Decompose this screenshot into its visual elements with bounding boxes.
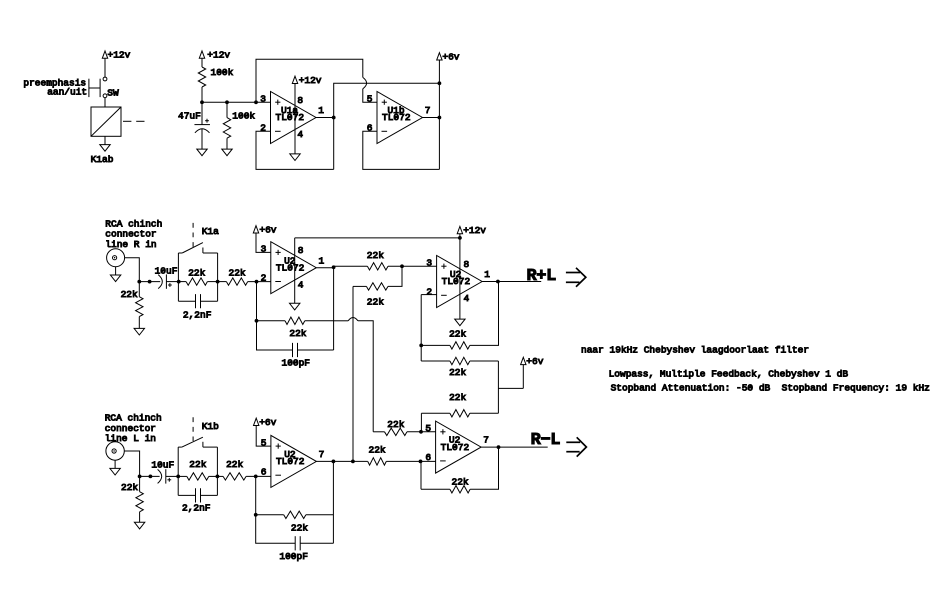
svg-text:22k: 22k <box>226 459 243 470</box>
wire RCA L to input node <box>124 451 139 476</box>
junction L riser <box>351 460 355 464</box>
junction L input <box>138 475 153 479</box>
svg-text:7: 7 <box>483 435 489 446</box>
junction K1b right <box>216 475 220 479</box>
wire U2 R feedback down <box>333 266 335 350</box>
svg-text:22k: 22k <box>452 477 469 488</box>
power +12v (U1a pin 8) <box>292 75 322 86</box>
svg-text:4: 4 <box>297 129 303 140</box>
power +12v (preemphasis switch supply) <box>102 50 130 61</box>
relay coil K1ab <box>91 107 121 165</box>
power +6v (bias) <box>521 356 544 367</box>
svg-text:+12v: +12v <box>108 50 131 61</box>
relay contact K1a (preemphasis bypass) <box>178 226 219 253</box>
wire preemphasis resistor ends L <box>178 475 217 477</box>
op-amp U1b TL072 <box>367 92 431 144</box>
wire U1b output <box>423 117 440 119</box>
note Stopband Attenuation and Frequency <box>611 383 930 394</box>
resistor 22k (sum bias to +6v) <box>421 357 498 378</box>
wire L signal riser <box>352 286 354 461</box>
wire R input node to 10uF <box>139 281 160 283</box>
ground U2 R pin 4 <box>290 303 300 310</box>
ground U1a pin 4 <box>290 154 300 161</box>
svg-text:1: 1 <box>319 255 325 266</box>
junction sum pin3 <box>400 264 404 268</box>
svg-text:7: 7 <box>425 105 431 116</box>
resistor 22k (R feedback) <box>285 317 307 339</box>
wire U1a pin8 to pin4 ground rail <box>294 84 296 154</box>
dashed actuator line K1a <box>192 223 194 248</box>
wire sum pin2 stub <box>421 294 436 296</box>
wire K1a box left <box>177 253 179 301</box>
svg-text:22k: 22k <box>289 328 306 339</box>
dashed actuator line from K1ab <box>123 120 145 122</box>
svg-text:+12v: +12v <box>463 225 486 236</box>
svg-text:22k: 22k <box>189 459 206 470</box>
wire switch to relay coil <box>104 98 106 107</box>
resistor 22k (R preemphasis) <box>186 267 207 285</box>
wire U2 R out to summing resistor <box>334 265 368 267</box>
resistor 22k (L series input) <box>217 459 271 480</box>
svg-text:22k: 22k <box>367 250 384 261</box>
svg-text:2,2nF: 2,2nF <box>182 502 211 513</box>
resistor 22k (riser to R-L pin5) <box>373 419 435 436</box>
junction +6v rail top <box>438 81 442 85</box>
svg-text:2: 2 <box>426 287 432 298</box>
svg-text:6: 6 <box>367 123 373 134</box>
arrow R-L out <box>566 437 586 456</box>
wire sum power vertical <box>459 234 461 319</box>
wire bias to R-L pin5 <box>420 413 422 432</box>
capacitor 47uF <box>178 102 210 149</box>
svg-text:R−L: R−L <box>531 431 561 450</box>
wire L input node to 10uF <box>140 475 160 477</box>
label RCA chinch connector line R in <box>105 218 162 250</box>
junction sum feedback <box>419 344 423 348</box>
resistor 100k (divider lower) <box>223 102 255 149</box>
resistor 22k (R input to ground) <box>121 282 143 329</box>
ground under R 22k <box>134 328 144 335</box>
svg-text:+6v: +6v <box>259 224 276 235</box>
svg-text:SW: SW <box>107 87 119 98</box>
wire U2 R power vertical <box>294 238 296 303</box>
power +12v (bias divider) <box>199 50 230 61</box>
wire +6v to U2 R pin3 <box>256 233 271 252</box>
wire K1b box left <box>177 447 179 495</box>
wire U2 R pin8 +12v rail <box>295 237 460 239</box>
wire 10uF to K1b network <box>166 475 178 477</box>
zero-slash strokes in value labels <box>158 70 750 558</box>
svg-text:+6v: +6v <box>526 356 543 367</box>
junction U1a output <box>332 116 336 120</box>
wire R feedback row to R-L amp with hop <box>334 318 374 432</box>
connector RCA R in <box>107 249 125 267</box>
wire 10uF to K1a network <box>166 281 178 283</box>
wire K1b box right <box>216 447 218 495</box>
wire hop over U1a output line <box>363 77 367 88</box>
resistor 100k (divider upper) <box>198 67 233 87</box>
power +6v (U2 R pin 3) <box>253 224 277 235</box>
svg-text:1: 1 <box>484 269 490 280</box>
svg-text:8: 8 <box>297 95 303 106</box>
junction K1a right <box>216 280 220 284</box>
wire sum output <box>482 281 541 283</box>
junction L feedback <box>254 513 258 517</box>
wire +6v rail vertical <box>438 60 440 169</box>
label R+L <box>527 267 557 286</box>
svg-text:6: 6 <box>425 452 431 463</box>
svg-text:R+L: R+L <box>527 267 557 286</box>
note Lowpass Multiple Feedback Chebyshev 1 dB <box>609 369 849 380</box>
capacitor 2,2nF (L preemphasis) <box>178 488 217 513</box>
svg-text:10uF: 10uF <box>151 460 174 471</box>
wire +12v to switch contact <box>104 58 106 77</box>
resistor 22k (L input to ground) <box>121 476 143 522</box>
wire U1a pin2 feedback frame <box>256 131 334 169</box>
wire +12v to R 100k <box>201 58 203 67</box>
svg-text:5: 5 <box>425 423 431 434</box>
ground under L 22k <box>134 522 144 529</box>
ground under RCA R <box>110 267 120 282</box>
junction U2 pin2 (R) <box>255 280 259 284</box>
wire K1a box right <box>217 253 219 301</box>
wire U2 R output <box>316 267 333 269</box>
svg-text:100k: 100k <box>211 67 234 78</box>
wire to sum pin3 <box>388 265 437 267</box>
resistor 22k (L to sum) <box>353 266 402 307</box>
junction R feedback <box>255 319 259 323</box>
wire U1b pin6 feedback frame <box>363 131 440 169</box>
resistor 22k (L feedback) <box>256 511 334 533</box>
ground under RCA L <box>110 460 120 475</box>
svg-text:8: 8 <box>464 259 470 270</box>
svg-text:22k: 22k <box>449 392 466 403</box>
switch SW (preemphasis aan/uit) <box>89 77 119 98</box>
capacitor 100pF (L feedback) <box>256 515 334 562</box>
svg-text:K1b: K1b <box>202 421 219 432</box>
wire 100k to node VREF <box>201 87 203 102</box>
note naar 19kHz Chebyshev laagdoorlaat filter <box>581 344 809 355</box>
wire +6v bias rail <box>498 361 523 413</box>
wire into U1b pin 5 <box>363 89 377 102</box>
junction U1b output <box>438 116 442 120</box>
junction U1a pin3 <box>254 100 258 104</box>
junction R input <box>137 280 151 284</box>
op-amp U2 TL072 (L channel) <box>261 435 325 487</box>
svg-text:5: 5 <box>261 437 267 448</box>
junction R-L output <box>497 445 501 449</box>
svg-text:1: 1 <box>318 105 324 116</box>
svg-text:2,2nF: 2,2nF <box>183 309 212 320</box>
svg-text:+12v: +12v <box>207 50 230 61</box>
svg-text:22k: 22k <box>387 419 404 430</box>
junction 100k lower tap <box>225 100 229 104</box>
svg-text:4: 4 <box>464 293 470 304</box>
svg-text:22k: 22k <box>229 267 246 278</box>
junction sum output <box>496 280 500 284</box>
svg-text:22k: 22k <box>121 289 138 300</box>
wire U1a output <box>316 117 334 119</box>
resistor 22k (R-L bias to +6v) <box>421 392 498 417</box>
label R-L <box>531 431 561 450</box>
ground under K1ab <box>100 136 110 151</box>
capacitor 10uF (R coupling) <box>155 266 178 289</box>
resistor 22k (R-L feedback) <box>421 447 499 493</box>
label RCA chinch connector line L in <box>105 413 162 445</box>
wire RCA R to input node <box>125 258 140 282</box>
capacitor 100pF (R feedback) <box>257 321 334 369</box>
svg-text:3: 3 <box>260 93 266 104</box>
svg-text:6: 6 <box>261 466 267 477</box>
svg-text:Lowpass, Multiple Feedback, Ch: Lowpass, Multiple Feedback, Chebyshev 1 … <box>609 369 849 380</box>
svg-text:naar 19kHz Chebyshev laagdoorl: naar 19kHz Chebyshev laagdoorlaat filter <box>581 344 809 355</box>
svg-text:5: 5 <box>367 93 373 104</box>
wire U2 R feedback row <box>257 282 334 321</box>
svg-text:3: 3 <box>261 244 267 255</box>
wire U2 L pin6 feedback <box>255 476 257 514</box>
junction U2 L output <box>332 460 336 464</box>
svg-text:4: 4 <box>298 279 304 290</box>
svg-text:aan/uit: aan/uit <box>47 87 87 98</box>
power +6v (U2 L pin 5) <box>254 417 277 428</box>
ground sum pin 4 <box>455 319 465 326</box>
wire R-L pin6 feedback <box>420 461 422 489</box>
junction U2 pin6 (L) <box>254 475 258 479</box>
junction R-L pin6 <box>419 460 423 464</box>
ground under 100k lower <box>222 149 232 156</box>
op-amp U2 TL072 (R-L diff) <box>425 421 489 473</box>
resistor 22k (L to R-L) <box>368 444 387 465</box>
op-amp U2 TL072 (R+L sum) <box>426 256 490 308</box>
power +6v (buffered rail) <box>437 51 460 62</box>
ground under 47uF <box>197 149 207 156</box>
svg-text:Stopband Attenuation: -50 dB: Stopband Attenuation: -50 dB Stopband Fr… <box>611 383 930 394</box>
op-amp U1a TL072 <box>260 92 324 144</box>
wire U1a pin3 frame up to U1b pin5 <box>256 59 363 102</box>
connector RCA L in <box>106 442 124 460</box>
resistor 22k (L preemphasis) <box>187 459 209 480</box>
node VREF wire (divider junction to U1a pin 3) <box>202 101 271 103</box>
wire R-L output <box>481 446 548 448</box>
capacitor 2,2nF (R preemphasis) <box>178 294 217 320</box>
op-amp U2 TL072 (R channel) <box>261 242 325 294</box>
svg-text:22k: 22k <box>449 367 466 378</box>
junction U2 R output <box>332 265 336 269</box>
svg-text:+12v: +12v <box>299 75 322 86</box>
wire preemphasis resistor ends <box>178 281 217 283</box>
wire sum pin2 to feedback rows <box>420 295 422 361</box>
junction K1a left <box>177 280 181 284</box>
resistor 22k (sum feedback) <box>421 282 498 350</box>
svg-text:10uF: 10uF <box>155 266 178 277</box>
relay contact K1b (preemphasis bypass) <box>178 421 219 447</box>
wire +6v to U2 L pin5 <box>256 426 271 447</box>
svg-text:2: 2 <box>260 123 266 134</box>
svg-text:8: 8 <box>298 245 304 256</box>
svg-text:22k: 22k <box>369 444 386 455</box>
svg-text:22k: 22k <box>449 329 466 340</box>
svg-text:7: 7 <box>319 449 325 460</box>
junction +12v rail <box>458 236 462 240</box>
svg-text:47uF: 47uF <box>178 110 201 121</box>
svg-text:22k: 22k <box>121 482 138 493</box>
svg-text:K1ab: K1ab <box>91 154 114 165</box>
resistor 22k (R series input) <box>218 267 271 285</box>
svg-text:22k: 22k <box>291 523 308 534</box>
svg-text:+6v: +6v <box>259 417 276 428</box>
dashed actuator line K1b <box>192 417 194 441</box>
svg-text:+6v: +6v <box>442 51 459 62</box>
wire U2 L feedback down <box>332 461 334 543</box>
junction K1b left <box>176 475 180 479</box>
power +12v (sum pin 8) <box>457 225 486 236</box>
junction divider <box>200 100 204 104</box>
resistor 22k (R to sum) <box>367 250 388 270</box>
arrow R+L out <box>566 268 586 287</box>
svg-text:22k: 22k <box>188 267 205 278</box>
label preemphasis aan/uit <box>23 77 87 97</box>
svg-text:22k: 22k <box>367 297 384 308</box>
wire U2 L output row to R-L pin6 <box>316 460 435 462</box>
svg-text:2: 2 <box>261 273 267 284</box>
svg-text:K1a: K1a <box>202 226 219 237</box>
capacitor 10uF (L coupling) <box>151 460 174 484</box>
svg-text:100k: 100k <box>232 111 255 122</box>
svg-text:3: 3 <box>426 257 432 268</box>
junction R-L pin5 <box>419 430 423 434</box>
wire U1a output to +6v node <box>334 83 440 169</box>
svg-text:line R in: line R in <box>105 239 156 250</box>
